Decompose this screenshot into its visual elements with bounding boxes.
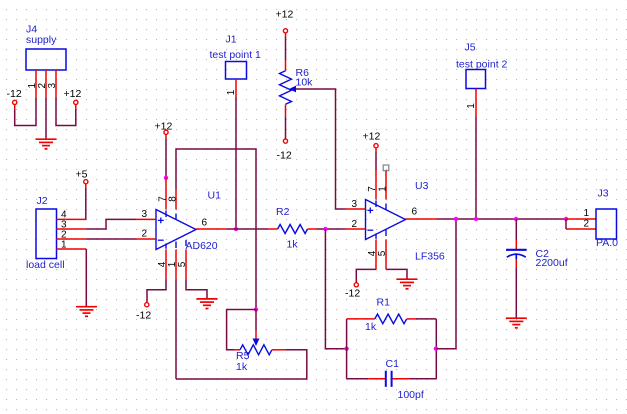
svg-text:1: 1 [226,89,237,95]
svg-text:2: 2 [352,219,358,230]
power -12 symbol circle (R6) [283,139,287,143]
capacitor C2 curved plate [507,254,526,257]
junction output net / J5 [474,217,478,221]
svg-text:test point 2: test point 2 [456,59,508,71]
power -12 symbol circle (J4) [13,100,17,104]
op-amp U3 body [366,200,406,240]
ground (J4 pin 2) [36,139,57,149]
power +12 symbol circle (U3) [374,144,378,148]
potentiometer R6 top lead [285,59,287,71]
wire +12 to J4 pin 3 [56,98,76,126]
junction output net / J3 pin 2 branch [564,217,568,221]
svg-text:1k: 1k [287,239,299,251]
op-amp U1 pin 6 stub [196,228,227,230]
potentiometer R5 wiper arrow [253,339,260,347]
power +12 stem (R6) [285,33,287,38]
wire output net (U3 pin 6 to J3) [437,218,566,220]
connector J3 pin 2 stub [566,228,596,230]
svg-text:+12: +12 [64,88,82,100]
wire C1 row right segment [410,378,436,380]
svg-text:J2: J2 [37,195,48,207]
op-amp U3 pin 2 stub [346,228,366,230]
op-amp U1 pin 3 stub [136,218,156,220]
svg-text:AD620: AD620 [186,240,218,252]
svg-text:-12: -12 [136,309,151,321]
svg-text:-12: -12 [7,88,22,100]
test point J5 pin 1 stub [475,89,477,118]
op-amp U3 pin 1 inner segment [385,204,387,210]
svg-text:1: 1 [584,208,590,219]
power +12 symbol circle (U1) [164,130,168,134]
svg-text:1k: 1k [236,361,248,373]
connector J2 pin 1 stub [57,248,87,250]
connector J4 body [26,49,66,70]
wire U3 pin 5 to ground [386,269,407,278]
svg-text:-12: -12 [277,150,292,162]
svg-text:1: 1 [378,186,389,192]
connector J4 pin 3 stub [55,70,57,99]
op-amp U3 plus mark [367,208,373,214]
potentiometer R5 body [240,345,272,355]
wire U3 inverting node to feedback loop left [325,229,346,349]
op-amp U1 body [156,210,196,250]
potentiometer R6 wiper arrow [289,86,296,93]
svg-text:10k: 10k [296,77,314,89]
wire R1 to feedback loop right vertical [415,318,436,320]
potentiometer R5 right lead [272,349,286,351]
power +12 stem (U1) [165,135,167,141]
resistor R1 body [375,314,407,324]
no-connect square on U3 pin 1 [383,165,389,171]
svg-text:LF356: LF356 [415,251,445,263]
svg-text:100pf: 100pf [398,389,424,401]
power -12 symbol circle (U3) [354,283,358,287]
wire J5 pin to output net [475,117,477,219]
test point J1 pin 1 stub [235,79,237,97]
junction feedback loop right [434,347,438,351]
svg-text:J5: J5 [465,42,476,54]
svg-text:-12: -12 [345,288,360,300]
potentiometer R6 bottom lead [285,105,287,117]
svg-text:R1: R1 [377,297,391,309]
op-amp U3 pin 6 stub [406,218,438,220]
svg-text:2: 2 [584,219,590,230]
capacitor C1 right lead [392,378,410,380]
svg-text:J1: J1 [226,34,237,46]
op-amp U1 pin 1 stub [175,250,177,280]
op-amp U1 plus mark [158,218,164,224]
svg-text:5: 5 [377,250,388,256]
connector J2 pin 2 stub [57,238,87,240]
op-amp U1 pin 8 inner segment [175,214,177,220]
wire R6 wiper to U3 pin 3 [296,89,346,209]
junction at R5 wiper node [254,307,258,311]
svg-text:+12: +12 [363,131,381,143]
svg-text:3: 3 [352,199,358,210]
svg-text:load cell: load cell [26,259,65,271]
resistor R1 right lead [407,318,416,320]
svg-text:+12: +12 [155,120,173,132]
wire J3 pin 2 branch [565,219,567,229]
test point J5 body [466,70,486,89]
svg-text:PA.0: PA.0 [596,237,618,249]
op-amp U1 pin 4 stub [165,250,167,280]
connector J2 pin 3 stub [57,228,87,230]
wire +12 to R6 top [285,38,287,60]
junction at U1 output / J1 [234,227,238,231]
test point J1 body [226,62,247,80]
resistor R1 left lead [347,318,375,320]
junction at U3 inverting input node [323,227,327,231]
op-amp U3 pin 4 inner segment [375,234,377,239]
svg-text:6: 6 [202,218,208,229]
wire U1 pin 5 to ground [186,279,207,298]
svg-text:2200uf: 2200uf [536,257,568,269]
capacitor C1 left lead [368,378,385,380]
connector J4 pin 2 stub [45,70,47,99]
op-amp U1 pin 2 stub [136,238,156,240]
wire C1 row left segment [347,378,369,380]
junction feedback loop left [344,347,348,351]
capacitor C2 top plate [506,249,527,251]
potentiometer R5 wiper wire [255,310,257,331]
op-amp U3 pin 7 inner segment [375,201,377,208]
capacitor C2 top lead [515,240,517,249]
ground (U3 pin 5) [397,279,418,289]
power +5 stem [85,184,87,189]
op-amp U3 minus mark [367,229,373,231]
connector J2 body [36,209,57,259]
power -12 stem (J4) [14,105,16,110]
connector J3 body [596,209,617,239]
svg-text:+12: +12 [276,9,294,21]
op-amp U3 pin 3 stub [346,208,366,210]
svg-text:supply: supply [26,34,57,46]
wire J1 pin to U1 output node [235,97,237,229]
power +12 symbol circle (J4) [74,100,78,104]
junction output net / feedback drop [454,217,458,221]
ground (C2) [506,318,527,328]
power +12 stem (U3) [375,148,377,153]
op-amp U3 pin 5 stub [385,240,387,270]
svg-text:test point 1: test point 1 [210,49,262,61]
power -12 symbol circle (U1) [145,303,149,307]
op-amp U3 pin 4 stub [375,240,377,270]
op-amp U1 pin 4 inner segment [165,244,167,249]
svg-text:R2: R2 [276,206,290,218]
svg-text:5: 5 [177,261,188,267]
power +12 symbol circle (R6) [283,29,287,33]
wire R5 link (junction to left terminal) [227,310,256,350]
potentiometer R5 left lead [234,349,240,351]
wire U1 output to R2 [227,228,268,230]
svg-text:J3: J3 [598,188,609,200]
resistor R2 body [278,225,308,234]
connector J4 pin 1 stub [35,70,37,99]
op-amp U1 pin 7 inner segment [165,211,167,218]
wire feedback loop right vertical [435,319,437,379]
junction output net / C2 [514,217,518,221]
wire U1 pin 4 to -12 [147,279,166,302]
svg-text:8: 8 [168,196,179,202]
capacitor C2 plate stem [515,254,517,259]
op-amp U1 pin 1 inner segment [175,242,177,249]
power +12 stem (J4) [75,105,77,110]
svg-text:7: 7 [367,186,378,192]
wire J4 pin 2 to ground [45,98,47,139]
wire U1 pin 1 to gain loop bottom [175,279,177,379]
op-amp U3 pin 7 stub [375,170,377,200]
wire U1 pin 8 to R5 (gain loop top) [176,149,256,310]
wire feedback loop left vertical [346,319,348,379]
svg-text:1: 1 [61,240,67,251]
capacitor C2 bottom lead [515,259,517,268]
resistor R2 left lead [268,228,278,230]
wire +5 to J2 pin 4 [85,189,87,220]
wire +12 to U1 pin 7 [165,140,167,178]
op-amp U1 minus mark [158,239,164,241]
op-amp U1 pin 5 stub [185,250,187,280]
wire R6 bottom to -12 [285,116,287,138]
op-amp U3 pin 1 stub [385,171,387,200]
wire R2 to U3 pin 2 [317,228,346,230]
ground (J2 pin 1) [76,307,97,317]
ground (U1 pin 5) [197,299,218,309]
power +5 symbol circle [84,180,88,184]
svg-text:6: 6 [412,207,418,218]
potentiometer R5 wiper stub [255,331,257,339]
wire R5 right terminal to U1 pin 1 (gain loop bottom) [176,350,307,379]
wire J2 pin 2 to U1 pin 2 [86,238,136,240]
svg-text:3: 3 [47,82,58,88]
svg-text:U3: U3 [415,180,429,192]
connector J2 pin 4 stub [57,218,87,220]
wire C2 to ground [515,268,517,318]
svg-text:2: 2 [142,229,148,240]
resistor R2 right lead [308,228,317,230]
op-amp U1 pin 5 inner segment [185,240,187,246]
junction at +12 / U1 pin 7 [164,176,168,180]
op-amp U1 pin 8 stub [175,189,177,210]
svg-text:U1: U1 [208,190,222,202]
svg-text:1: 1 [466,103,477,109]
wire output net to C2 [515,219,517,240]
svg-text:1k: 1k [365,321,377,333]
wire +12 to U3 pin 7 [375,153,377,171]
wire J2 pin 3 to U1 pin 3 [86,219,136,229]
wire -12 to J4 pin 1 [15,98,36,126]
wire feedback loop right to output drop [436,219,456,349]
op-amp U3 pin 5 inner segment [385,230,387,236]
potentiometer R6 body [280,71,292,105]
connector J3 pin 1 stub [566,218,596,220]
wire J2 pin 1 to ground [85,249,87,306]
op-amp U1 pin 7 stub [165,178,167,210]
svg-text:+5: +5 [76,169,88,181]
svg-text:C1: C1 [386,358,400,370]
capacitor C1 plates [386,371,392,387]
svg-text:3: 3 [142,209,148,220]
wire U3 pin 4 to -12 [356,269,376,282]
